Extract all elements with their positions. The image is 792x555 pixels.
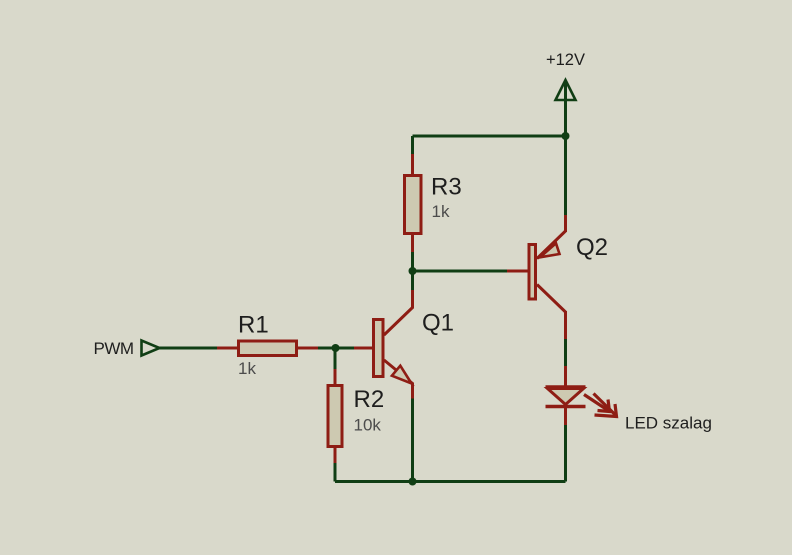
svg-text:LED szalag: LED szalag [625,414,712,433]
wire bottom rail [335,480,566,483]
svg-text:+12V: +12V [546,51,585,69]
LED D1 [546,366,617,427]
svg-text:1k: 1k [432,202,450,221]
svg-text:R1: R1 [238,312,269,339]
svg-text:R2: R2 [354,386,385,413]
wire Q2 emitter to rail [564,136,567,215]
wire LED cathode down [564,425,567,482]
node junction top [562,132,570,140]
LED light arrow 1 [584,395,610,412]
wire Q1 collector up [411,271,414,290]
wire R3 bottom stub [411,252,414,271]
supply +12V symbol [556,80,576,136]
resistor R2 [328,369,342,464]
svg-text:Q1: Q1 [422,310,454,337]
wire R2 bottom to rail [334,463,337,482]
resistor R1 [217,341,320,356]
svg-text:10k: 10k [354,416,382,435]
wire top rail [413,135,566,138]
node junction emitter-rail [409,478,417,486]
wire Q2 collector to LED [564,339,567,368]
svg-text:R3: R3 [431,174,462,201]
node junction base [332,344,340,352]
transistor Q2 [507,214,566,340]
wire PWM to R1 [160,347,219,350]
LED light arrow 2 [594,394,617,417]
svg-text:Q2: Q2 [576,234,608,261]
wire base net to Q2 [413,270,508,273]
wire R2 top stub [334,348,337,370]
transistor Q1 [354,289,413,400]
node junction collector [409,267,417,275]
wire R1 to base node [318,347,356,350]
resistor R3 [405,154,422,254]
wire Q1 emitter down [411,399,414,482]
svg-text:PWM: PWM [94,339,134,358]
svg-text:1k: 1k [238,359,256,378]
pin PWM input [142,341,160,356]
wire R3 top stub [411,136,414,156]
